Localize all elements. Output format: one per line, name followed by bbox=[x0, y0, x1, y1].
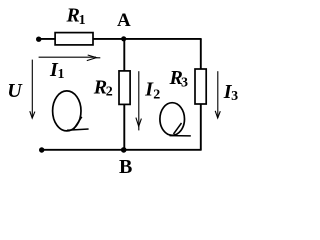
terminal dot top-left bbox=[36, 37, 41, 42]
wire bottom horizontal from left terminal to right corner bbox=[42, 149, 202, 151]
svg-text:2: 2 bbox=[153, 87, 160, 102]
svg-text:2: 2 bbox=[106, 84, 113, 99]
svg-text:A: A bbox=[117, 10, 131, 31]
arrow I2 (current arrow down) bbox=[136, 71, 142, 130]
resistor R2 bbox=[119, 71, 130, 105]
svg-text:3: 3 bbox=[231, 89, 238, 104]
loop arrow middle mesh bbox=[160, 103, 191, 136]
resistor R3 bbox=[195, 69, 206, 104]
arrow I3 (current arrow down) bbox=[215, 71, 220, 118]
svg-text:3: 3 bbox=[181, 75, 188, 90]
wire from node A down through R2 to node B bbox=[123, 39, 125, 150]
terminal dot bottom-left bbox=[39, 147, 44, 152]
arrow U (voltage arrow down) bbox=[30, 60, 35, 119]
wire right vertical from top corner down to R3 and to bottom wire bbox=[200, 39, 202, 150]
node B junction dot bbox=[121, 147, 127, 153]
wire top horizontal from left terminal through R1 to right corner bbox=[39, 38, 202, 40]
svg-text:1: 1 bbox=[58, 67, 65, 82]
svg-text:1: 1 bbox=[79, 13, 86, 28]
resistor R1 bbox=[55, 33, 93, 45]
node A junction dot bbox=[121, 36, 126, 41]
svg-text:U: U bbox=[7, 80, 23, 102]
loop arrow left mesh bbox=[53, 91, 89, 131]
svg-text:B: B bbox=[119, 156, 132, 178]
arrow I1 (current arrow right) bbox=[39, 55, 101, 61]
